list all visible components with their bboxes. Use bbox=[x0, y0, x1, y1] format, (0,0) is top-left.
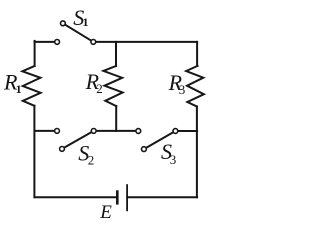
switch S3 blade tip circle bbox=[142, 147, 147, 152]
switch S1 left terminal circle bbox=[55, 40, 60, 45]
svg-text:3: 3 bbox=[170, 152, 177, 167]
wire left column lower bbox=[33, 106, 35, 198]
switch S1 blade tip circle bbox=[61, 21, 66, 26]
svg-text:2: 2 bbox=[88, 153, 95, 168]
wire right column lower bbox=[196, 107, 198, 198]
switch S3 blade bbox=[144, 131, 176, 149]
battery E positive plate (long) bbox=[126, 184, 128, 211]
wire right column upper bbox=[196, 42, 198, 66]
resistor R3 bbox=[186, 66, 204, 107]
switch S3 left terminal circle bbox=[136, 129, 141, 134]
resistor R1 bbox=[22, 66, 40, 106]
svg-text:1: 1 bbox=[16, 82, 22, 96]
wire mid row left segment bbox=[35, 130, 55, 132]
switch S2 blade tip circle bbox=[60, 147, 65, 152]
switch S2 left terminal circle bbox=[55, 129, 60, 134]
switch S2 pivot circle bbox=[91, 129, 96, 134]
wire top-right segment bbox=[93, 41, 197, 43]
wire middle column upper bbox=[115, 42, 117, 66]
svg-text:E: E bbox=[99, 202, 112, 223]
battery E negative plate (short) bbox=[116, 190, 119, 204]
switch S2 blade bbox=[62, 131, 94, 149]
resistor R2 bbox=[103, 66, 122, 106]
wire bottom-left segment bbox=[35, 196, 117, 198]
wire left column upper bbox=[34, 41, 36, 66]
wire bottom-right segment bbox=[127, 196, 197, 198]
wire mid row center segment bbox=[94, 130, 136, 132]
svg-text:3: 3 bbox=[179, 82, 186, 97]
wire middle column lower bbox=[115, 106, 117, 131]
switch S3 pivot circle bbox=[173, 129, 178, 134]
wire mid row right segment bbox=[175, 130, 197, 132]
switch S1 blade bbox=[63, 23, 93, 42]
svg-text:2: 2 bbox=[96, 81, 103, 96]
wire top-left segment bbox=[35, 41, 55, 43]
switch S1 pivot circle bbox=[91, 40, 96, 45]
svg-text:1: 1 bbox=[83, 15, 89, 29]
